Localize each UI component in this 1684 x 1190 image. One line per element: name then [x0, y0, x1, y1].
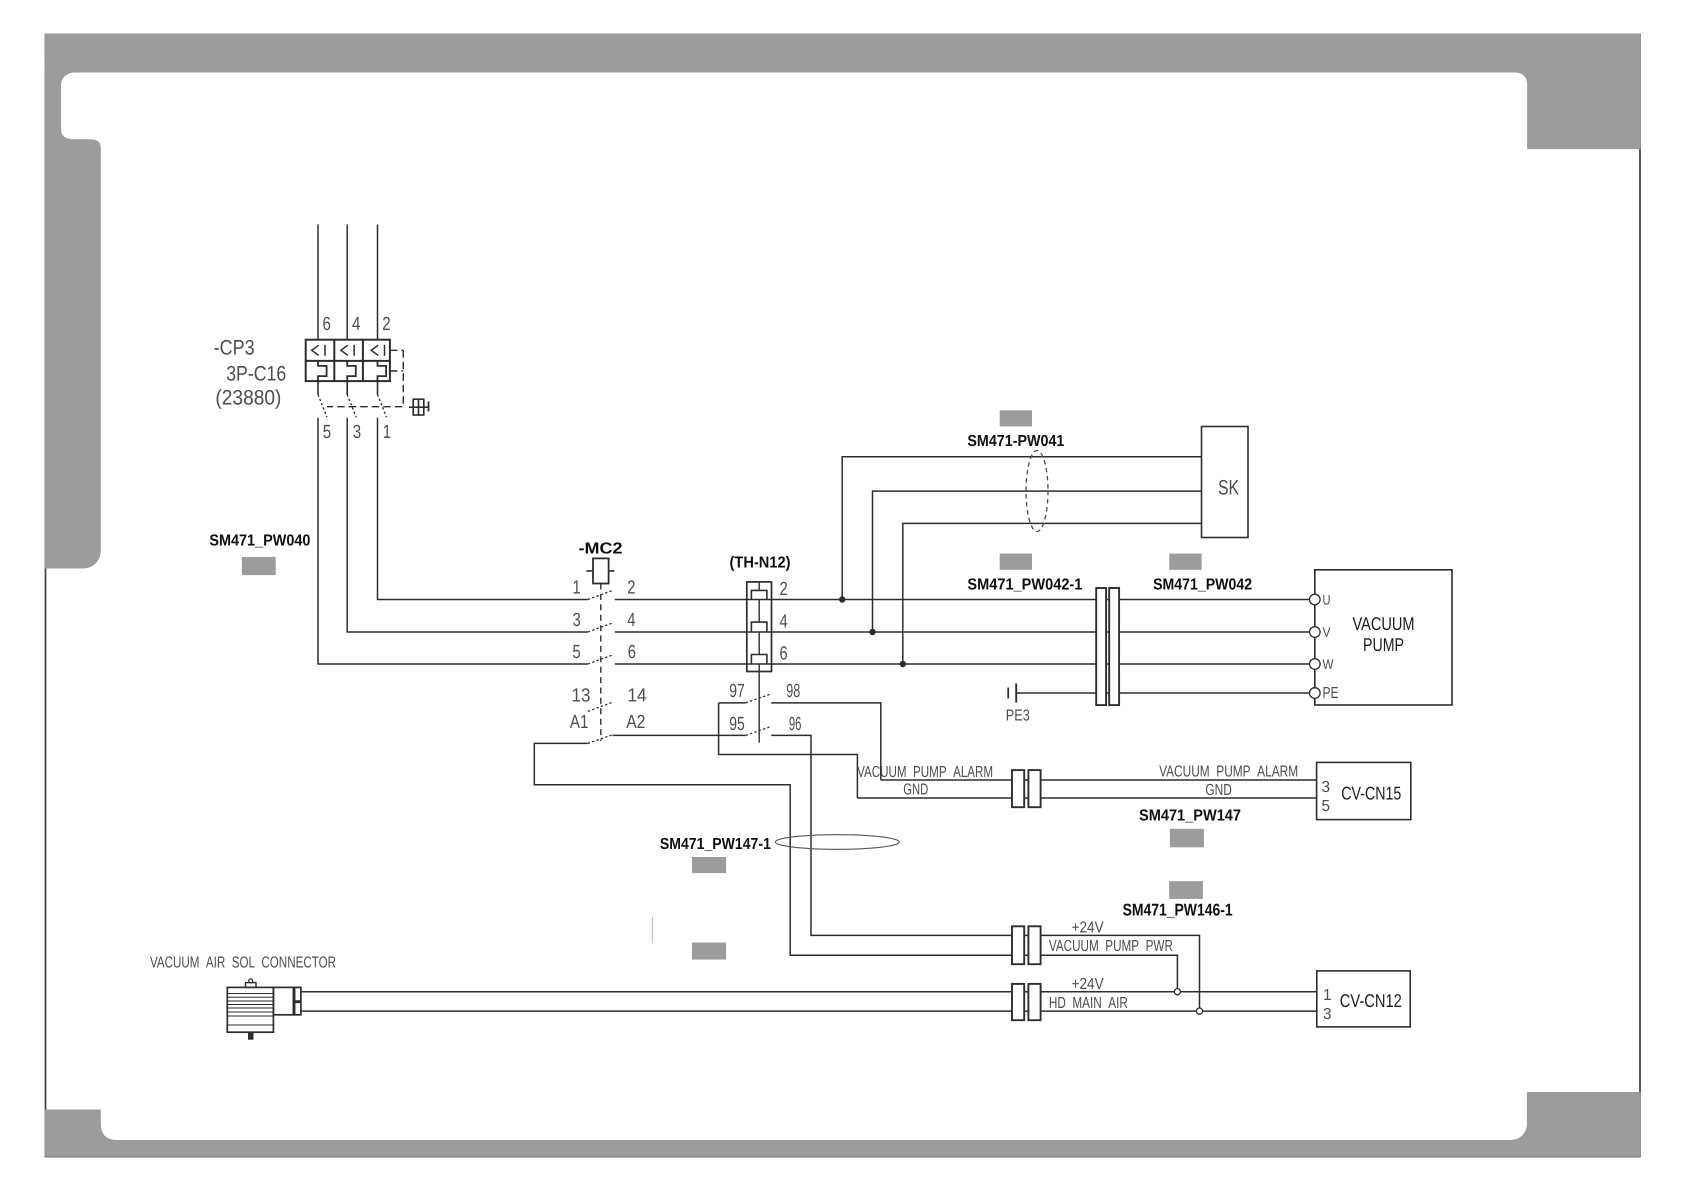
svg-text:(23880): (23880): [215, 387, 281, 410]
svg-text:3: 3: [353, 422, 361, 443]
connector box SK: [1202, 427, 1249, 538]
wire PE to pump: [1016, 692, 1310, 694]
vacuum air sol connector body: [227, 987, 273, 1032]
cable marker SM471_PW146-1 gray box: [1169, 881, 1203, 899]
vacuum pump terminal PE: [1310, 688, 1321, 699]
svg-text:-CP3: -CP3: [214, 337, 255, 360]
cable ellipse SM471-PW041: [1026, 451, 1048, 532]
wire phase U MC2 to pump: [615, 599, 1311, 601]
svg-text:4: 4: [627, 610, 636, 631]
thermal contact 97 wire: [719, 702, 746, 704]
circuit breaker CP3 outline: [306, 340, 390, 381]
cable connector pair SM471_PW146-1 bar 2: [1028, 926, 1040, 964]
wire pole5 to MC2 contact 5: [318, 418, 588, 664]
wire feeder L1 (pole 2): [377, 225, 379, 340]
thermal relay TH-N12 heater element at y=599.5: [751, 590, 767, 599]
vacuum air sol connector top screw: [246, 983, 257, 988]
wire VACUUM PUMP ALARM: [881, 779, 1317, 781]
gray corner decoration: top band and top-right block: [45, 34, 1641, 149]
cable marker SM471_PW147 gray box: [1170, 829, 1204, 848]
thermal relay TH-N12 internal link line: [758, 582, 760, 743]
svg-text:PUMP: PUMP: [1363, 634, 1404, 655]
svg-text:3: 3: [1322, 779, 1331, 796]
svg-text:95: 95: [729, 714, 745, 735]
breaker CP3 pole blade at x=347.2: [346, 381, 348, 394]
svg-text:SM471_PW147-1: SM471_PW147-1: [660, 836, 771, 853]
wire A1 feeder: [534, 743, 1177, 988]
node circle +24V junction: [1174, 989, 1180, 995]
svg-text:V: V: [1323, 624, 1332, 640]
svg-text:VACUUM: VACUUM: [1353, 613, 1415, 634]
ground symbol PE3: [1007, 688, 1009, 699]
breaker CP3 thermal trip hook at x=347.2: [347, 361, 356, 381]
svg-text:U: U: [1323, 592, 1331, 608]
svg-text:14: 14: [628, 685, 647, 706]
wire branch W to SK: [903, 523, 1202, 664]
breaker CP3 contact symbol at x=377.5: [371, 345, 378, 355]
wire pole1 to MC2 contact 1: [378, 418, 588, 600]
cable marker SM471_PW042 gray box: [1169, 554, 1201, 570]
cable connector pair HD bar 1: [1012, 984, 1024, 1020]
contactor MC2 coil contact A1-A2 blade: [588, 735, 613, 744]
svg-text:SK: SK: [1218, 477, 1239, 500]
wire +24V HD MAIN AIR: [301, 991, 1317, 993]
svg-text:2: 2: [780, 579, 788, 600]
svg-text:98: 98: [786, 681, 800, 702]
svg-text:GND: GND: [1205, 782, 1232, 799]
cable marker gray box (unlabeled): [692, 943, 726, 960]
svg-text:5: 5: [323, 422, 331, 443]
svg-text:SM471_PW042-1: SM471_PW042-1: [967, 577, 1082, 594]
svg-text:6: 6: [628, 642, 636, 663]
svg-text:HD MAIN AIR: HD MAIN AIR: [1049, 995, 1128, 1012]
wire branch V to SK: [873, 491, 1202, 632]
thermal contact 97-98 blade: [746, 694, 771, 703]
cable ellipse SM471_PW147-1: [775, 835, 899, 850]
vacuum pump box: [1315, 570, 1452, 705]
svg-text:VACUUM PUMP ALARM: VACUUM PUMP ALARM: [1159, 764, 1298, 781]
svg-text:2: 2: [627, 578, 635, 599]
svg-text:A2: A2: [626, 712, 645, 733]
node circle HD return junction: [1196, 1008, 1202, 1014]
wire A2 to thermal contact 95: [613, 734, 746, 736]
svg-text:PE: PE: [1323, 685, 1339, 702]
svg-text:CV-CN15: CV-CN15: [1341, 783, 1401, 804]
thermal contact 96 wire: [771, 735, 1199, 1008]
svg-text:1: 1: [1323, 987, 1332, 1004]
cable marker SM471_PW042-1 gray box: [1000, 554, 1032, 570]
wire pole3 to MC2 contact 3: [347, 418, 588, 632]
vacuum pump terminal V: [1310, 627, 1321, 638]
connector box CV-CN12: [1317, 971, 1410, 1027]
vacuum pump terminal W: [1310, 659, 1321, 670]
breaker CP3 trip linkage (dashed): [327, 350, 403, 406]
svg-text:13: 13: [572, 685, 591, 706]
cable connector pair SM471_PW042 bar 2: [1109, 588, 1119, 705]
svg-text:(TH-N12): (TH-N12): [730, 555, 791, 572]
cable marker SM471_PW147-1 gray box: [692, 857, 726, 873]
svg-text:4: 4: [352, 314, 361, 335]
svg-text:6: 6: [323, 314, 331, 335]
svg-text:2: 2: [382, 314, 390, 335]
svg-text:3: 3: [573, 610, 581, 631]
svg-text:A1: A1: [570, 712, 589, 733]
thermal relay TH-N12 heater element at y=632.0: [751, 622, 767, 632]
svg-text:3: 3: [1323, 1006, 1332, 1023]
wire HD MAIN AIR return: [301, 1010, 1317, 1012]
svg-text:W: W: [1323, 656, 1335, 672]
svg-text:VACUUM AIR SOL CONNECTOR: VACUUM AIR SOL CONNECTOR: [150, 954, 336, 971]
svg-text:6: 6: [780, 644, 788, 665]
svg-text:SM471-PW041: SM471-PW041: [967, 433, 1064, 450]
svg-text:SM471_PW146-1: SM471_PW146-1: [1123, 900, 1233, 919]
connector box CV-CN15: [1317, 762, 1411, 819]
thermal relay TH-N12 heater element at y=664.0: [751, 655, 767, 665]
svg-text:5: 5: [1322, 798, 1331, 815]
vacuum air sol connector bottom stub: [248, 1032, 254, 1040]
svg-text:1: 1: [573, 578, 581, 599]
svg-text:SM471_PW147: SM471_PW147: [1139, 808, 1241, 825]
thermal contact 98 wire to alarm: [771, 703, 881, 780]
contactor MC2 main contact 3-4 blade: [588, 623, 612, 632]
breaker CP3 thermal trip hook at x=318.0: [318, 361, 327, 381]
wire phase W MC2 to pump: [615, 663, 1311, 665]
breaker CP3 pole blade at x=377.5: [377, 381, 379, 394]
svg-text:-MC2: -MC2: [579, 541, 623, 558]
svg-text:PE3: PE3: [1006, 708, 1030, 725]
contactor MC2 coil: [593, 558, 609, 583]
junction dot W/SK: [900, 661, 906, 667]
breaker CP3 contact symbol at x=347.2: [341, 345, 348, 355]
svg-text:VACUUM PUMP ALARM: VACUUM PUMP ALARM: [857, 764, 993, 781]
cable connector pair SM471_PW146-1 bar 1: [1012, 926, 1024, 964]
breaker CP3 pole blade at x=318.0: [317, 381, 319, 394]
cable connector pair SM471_PW147 bar 1: [1012, 770, 1024, 807]
stray plot artifact line: [652, 917, 653, 943]
svg-text:VACUUM PUMP PWR: VACUUM PUMP PWR: [1049, 938, 1173, 955]
svg-text:GND: GND: [903, 782, 928, 799]
svg-text:1: 1: [383, 422, 391, 443]
wire phase V MC2 to pump: [615, 631, 1311, 633]
svg-text:+24V: +24V: [1072, 976, 1104, 993]
gray corner decoration: bottom band with corner blocks: [45, 1092, 1641, 1157]
cable marker SM471-PW041 gray box: [1000, 410, 1032, 426]
vacuum air sol connector cable gland: [273, 987, 293, 1014]
gray corner decoration: left column: [45, 62, 101, 569]
breaker CP3 manual operator symbol: [409, 406, 428, 408]
breaker CP3 thermal trip hook at x=377.5: [378, 361, 387, 381]
cable connector pair HD bar 2: [1028, 984, 1040, 1020]
cable connector pair SM471_PW042 bar 1: [1096, 588, 1106, 705]
svg-text:+24V: +24V: [1072, 919, 1104, 936]
svg-text:SM471_PW042: SM471_PW042: [1153, 577, 1252, 594]
thermal relay TH-N12 box: [747, 582, 772, 672]
contactor MC2 actuator line (dashed): [600, 584, 602, 742]
junction dot U/SK: [839, 596, 845, 602]
wire 97 to GND: [719, 703, 858, 798]
junction dot V/SK: [869, 629, 875, 635]
cable marker SM471_PW040 gray box: [242, 557, 276, 575]
breaker CP3 contact symbol at x=318.0: [312, 345, 319, 355]
wire feeder L3 (pole 6): [317, 225, 319, 340]
svg-text:3P-C16: 3P-C16: [226, 363, 286, 386]
contactor MC2 main contact 1-2 blade: [588, 591, 612, 600]
svg-text:97: 97: [729, 681, 745, 702]
wire branch U to SK: [842, 457, 1201, 600]
svg-text:5: 5: [573, 642, 581, 663]
contactor MC2 main contact 5-6 blade: [588, 655, 612, 664]
svg-text:SM471_PW040: SM471_PW040: [209, 533, 310, 550]
svg-text:4: 4: [780, 612, 789, 633]
wire feeder L2 (pole 4): [346, 225, 348, 340]
thermal contact 95-96 blade: [746, 727, 771, 736]
vacuum pump terminal U: [1310, 594, 1321, 605]
svg-text:CV-CN12: CV-CN12: [1340, 990, 1402, 1011]
wire alarm GND: [857, 797, 1316, 799]
svg-text:96: 96: [789, 714, 802, 735]
cable connector pair SM471_PW147 bar 2: [1028, 770, 1040, 807]
contactor MC2 aux contact 13-14 blade: [588, 702, 612, 711]
